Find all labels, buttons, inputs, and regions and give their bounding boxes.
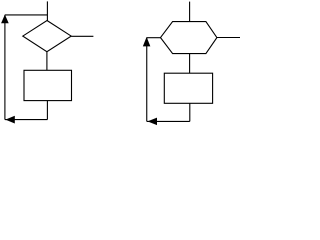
wire: loop left vertical (right flowchart) bbox=[146, 38, 148, 122]
wire: hexagon bottom to process box bbox=[189, 54, 191, 74]
arrowhead up at loop top corner (right flowchart) bbox=[143, 37, 151, 47]
wire: top stem into hexagon (right flowchart) bbox=[189, 2, 191, 22]
arrowhead left at loop bottom corner (left flowchart) bbox=[5, 116, 14, 124]
wire: top stem into diamond (left flowchart) bbox=[46, 1, 48, 20]
wire: loop bottom segment (right flowchart) bbox=[147, 120, 190, 122]
wire: loop left vertical (left flowchart) bbox=[4, 15, 6, 120]
arrowhead left at loop bottom corner (right flowchart) bbox=[148, 118, 158, 126]
process box P1 bbox=[24, 70, 72, 100]
wire: loop top horizontal into hexagon left vertex (right flowchart) bbox=[147, 37, 161, 39]
wire: diamond bottom to process box bbox=[46, 52, 48, 71]
wire: right branch from diamond bbox=[71, 35, 93, 37]
wire: process box bottom down bbox=[46, 101, 48, 120]
process box P2 bbox=[164, 73, 212, 103]
decision diamond D1 bbox=[23, 21, 71, 52]
wire: loop bottom segment (left flowchart) bbox=[5, 119, 48, 121]
preparation hexagon H1 bbox=[161, 22, 217, 54]
arrowhead up at loop top corner (left flowchart) bbox=[1, 15, 9, 24]
wire: right branch from hexagon bbox=[217, 37, 240, 39]
wire: process box bottom down (right flowchart) bbox=[189, 103, 191, 121]
wire: loop top horizontal into stem junction (left flowchart) bbox=[5, 14, 48, 16]
